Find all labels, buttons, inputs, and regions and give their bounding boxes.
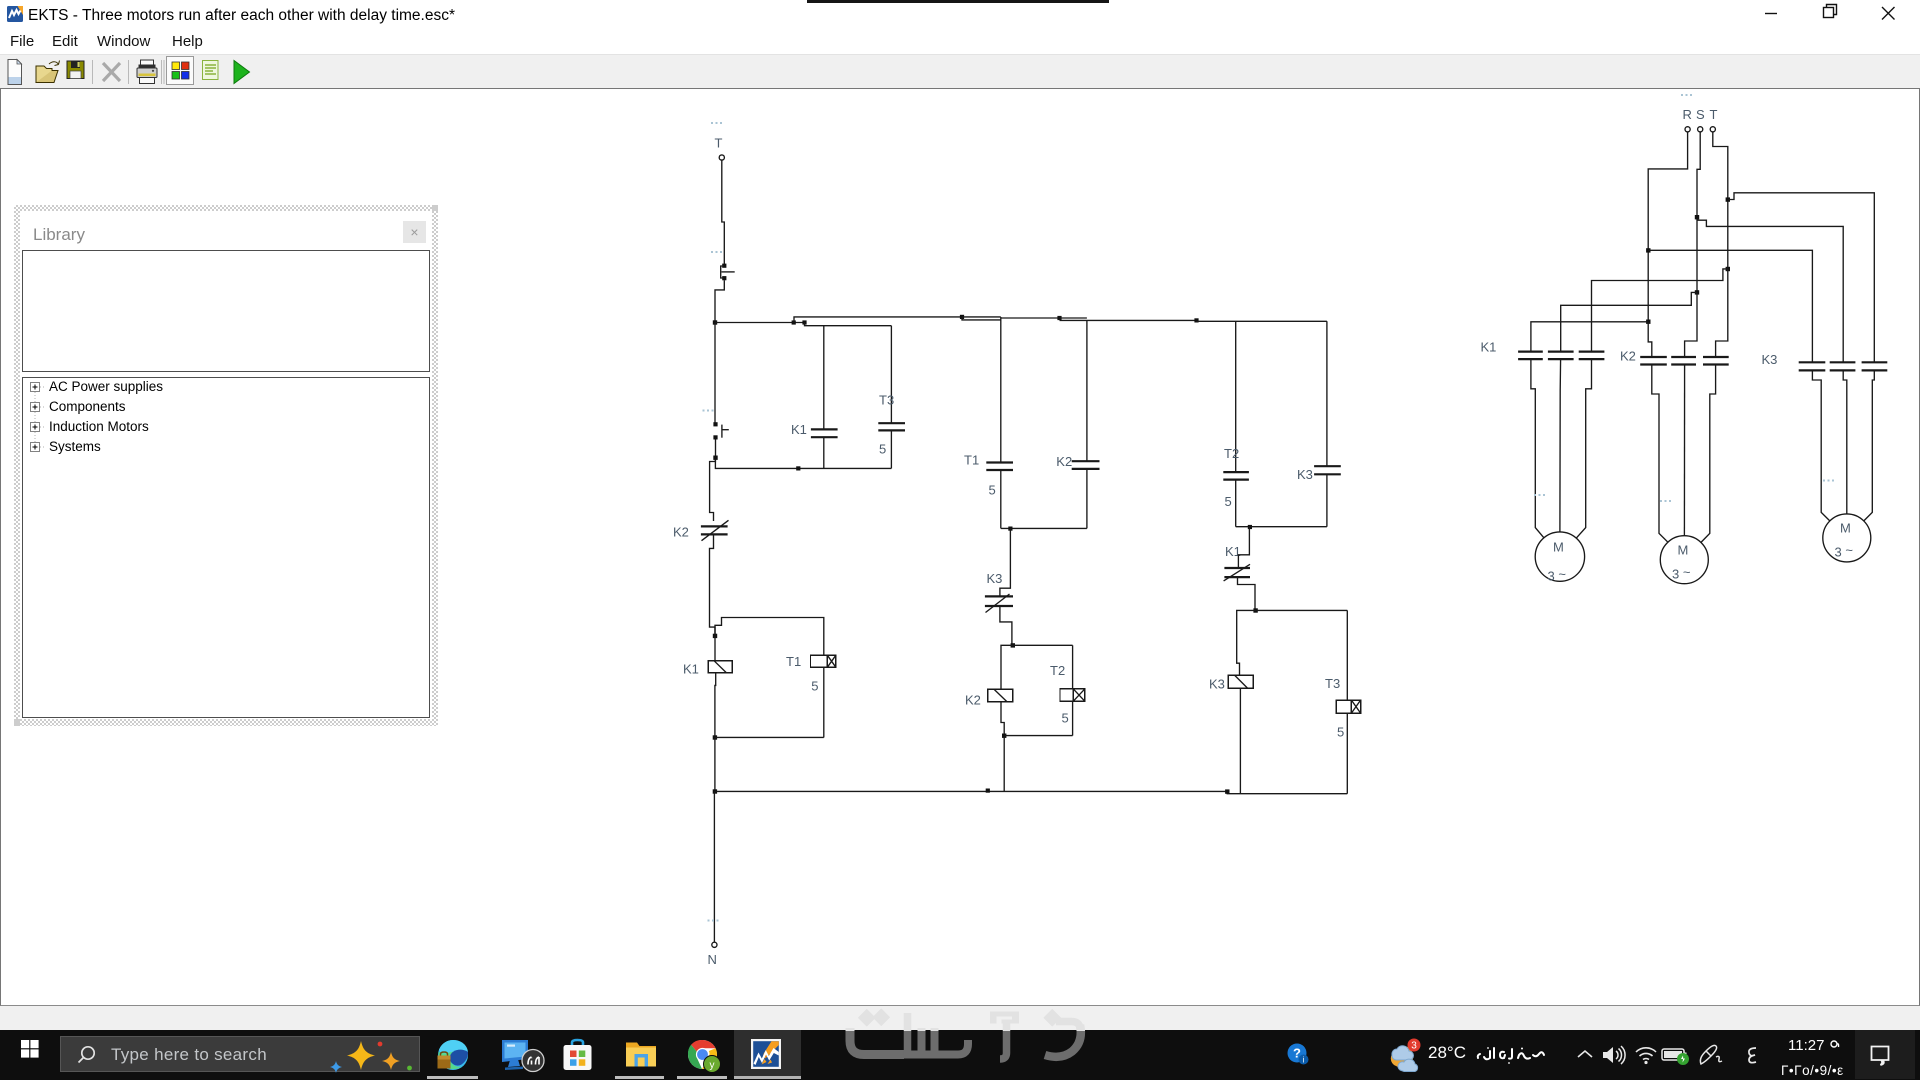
wire K2 coil loop bottom (1004, 735, 1072, 737)
toolbar (0, 54, 1920, 88)
node T-K1 junction (1726, 267, 1730, 271)
open (36, 61, 60, 83)
sparkle icons (323, 1037, 433, 1077)
motor M2 marks (1660, 500, 1671, 502)
node R terminal (1685, 127, 1690, 132)
report (203, 61, 219, 80)
svg-text:5: 5 (879, 442, 886, 457)
wire stop button to node A (715, 280, 724, 321)
relay coil K3 (1228, 675, 1253, 688)
svg-text:3: 3 (1411, 1041, 1417, 1052)
wire middle loop bottom (1001, 527, 1087, 529)
svg-text:K2: K2 (1056, 454, 1072, 469)
wire K3 coil loop top (1237, 610, 1348, 675)
svg-text:K2: K2 (1620, 349, 1636, 364)
tray speaker (1601, 1044, 1627, 1066)
wire top rail segment D (1001, 317, 1060, 319)
wire K3 pole2 to motor3 (1843, 370, 1847, 514)
wire S to K1 pole2 (1561, 292, 1697, 351)
search box (60, 1036, 420, 1072)
wire top rail segment F (1087, 319, 1197, 321)
wire K2 holding down (1086, 469, 1088, 529)
node T terminal (1710, 127, 1715, 132)
wire K1 pole3 to motor1 (1576, 359, 1591, 538)
node R-K1 junction (1646, 320, 1650, 324)
svg-text:M: M (1840, 521, 1851, 536)
help bubble icon (1287, 1043, 1309, 1065)
wire loop to K1 NC (1238, 527, 1250, 568)
node S-K1 junction (1695, 290, 1699, 294)
svg-text:3 ~: 3 ~ (1548, 567, 1567, 584)
wire S to K3 pole2 (1697, 220, 1843, 362)
wire K1 pole1 to motor1 (1531, 359, 1544, 538)
node D junction (713, 735, 717, 739)
wire K3 coil loop bottom (1227, 791, 1347, 793)
pushbutton NC S0 (stop) (721, 264, 735, 281)
wire K3 holding down (1326, 474, 1328, 526)
wire bottom rail (715, 790, 1227, 792)
svg-text:3 ~: 3 ~ (1835, 543, 1854, 560)
wire K1 coil loop top (715, 618, 824, 656)
wire riser K1 holding contact (823, 326, 825, 429)
svg-text:T1: T1 (964, 453, 979, 468)
wire riser T3 contact (890, 326, 892, 423)
contact K2 NO (holding) (1072, 461, 1100, 469)
node G junction (1002, 734, 1006, 738)
delete (disabled) (103, 63, 120, 81)
svg-text:K3: K3 (987, 571, 1003, 586)
wire T3 coil riser (1346, 610, 1348, 700)
svg-text:T: T (715, 136, 723, 151)
svg-text:K2: K2 (965, 693, 981, 708)
node N marks (708, 920, 719, 922)
wire riser K3 holding contact (1326, 321, 1328, 466)
wire phase R feeder (1648, 132, 1687, 322)
svg-text:T2: T2 (1050, 663, 1065, 678)
contactor K3 poles (1799, 362, 1888, 370)
wire K1 holding contact down (823, 437, 825, 468)
contact K2 NC (701, 520, 729, 540)
min / restore / close (1755, 0, 1915, 28)
contact K3 NC (985, 594, 1013, 613)
edge icon (437, 1039, 469, 1071)
contactor K2 poles (1640, 357, 1729, 365)
wire K1 NC to node H (1238, 577, 1256, 610)
wire right loop bottom (1236, 526, 1327, 528)
node A junction (713, 320, 717, 324)
wire holding loop bottom (715, 458, 891, 469)
clock time (1788, 1037, 1840, 1054)
clock date (arabic-indic) (1781, 1063, 1844, 1078)
wire K3 coil to loop bottom (1239, 688, 1241, 794)
wire top rail segment E (doubled) (1060, 317, 1087, 319)
wire to N terminal (713, 791, 715, 942)
tray wifi (1634, 1045, 1658, 1065)
svg-text:S: S (1696, 107, 1705, 122)
timer coil T3 (1336, 700, 1360, 713)
node S terminal (1698, 127, 1703, 132)
timer coil T2 (1060, 689, 1085, 701)
wire T1 coil down (823, 667, 825, 737)
pushbutton NO S1 (start) (713, 422, 728, 439)
svg-text:T3: T3 (1325, 676, 1340, 691)
wire top rail segment G (1197, 320, 1327, 322)
svg-text:i: i (1303, 1055, 1305, 1064)
motor M1 marks (1534, 494, 1545, 496)
wire node A to start button (714, 323, 716, 424)
wire T to K3 pole3 (1728, 193, 1875, 362)
explorer icon (625, 1040, 657, 1069)
contact T2 timed NO (1223, 472, 1249, 480)
svg-text:T3: T3 (879, 393, 894, 408)
timer coil T1 (811, 655, 836, 667)
svg-text:K3: K3 (1297, 467, 1313, 482)
pc icon with badge (499, 1039, 547, 1073)
svg-text:T: T (1710, 107, 1718, 122)
svg-text:R: R (1683, 107, 1692, 122)
node T terminal marks (711, 122, 722, 124)
Library panel (14, 205, 438, 211)
svg-text:K2: K2 (673, 525, 689, 540)
wire start button to node B (715, 440, 717, 458)
node B junction (713, 456, 717, 460)
wire node G to bottom rail (1003, 736, 1005, 792)
motor M3 marks (1823, 480, 1834, 482)
wire K3 pole1 to motor3 (1812, 370, 1829, 521)
wire K1 coil loop bottom (715, 736, 824, 738)
tray battery (1661, 1045, 1691, 1067)
wire S to K2 pole2 (1685, 292, 1697, 357)
wire riser T2 contact (1235, 321, 1237, 472)
wire R to K3 pole1 (1648, 250, 1812, 362)
svg-text:5: 5 (1337, 725, 1344, 740)
wire T terminal to stop button (722, 160, 725, 264)
wire T3 contact down (890, 430, 892, 468)
node C junction (713, 634, 717, 638)
relay coil K2 (988, 689, 1013, 701)
contact K1 NC (1224, 564, 1250, 581)
new (8, 60, 22, 85)
arabic weather text (1476, 1046, 1546, 1066)
node R-K3 junction (1646, 248, 1650, 252)
relay coil K1 (708, 661, 732, 673)
colors (pressed) (167, 57, 194, 85)
wire T2 coil sides (1072, 645, 1074, 689)
wire R to K2 pole1 (1648, 322, 1652, 357)
wire K2 NC to node C (710, 534, 716, 635)
node T-K3 junction (1726, 197, 1730, 201)
menu bar (0, 30, 1920, 54)
wire T to K2 pole3 (1716, 269, 1728, 357)
wire K2 coil loop top (1001, 645, 1073, 689)
contactor K1 poles (1518, 352, 1604, 360)
wire top rail segment C (962, 317, 1001, 320)
svg-text:3 ~: 3 ~ (1672, 565, 1691, 582)
wire node B to K2 NC contact (710, 460, 716, 521)
contact K3 NO (holding) (1314, 466, 1341, 474)
svg-text:N: N (708, 952, 717, 967)
wire T to K1 pole3 (1592, 269, 1728, 352)
wire K2 pole1 to motor2 (1652, 365, 1668, 543)
wire riser T1 contact (1000, 317, 1002, 462)
run (234, 61, 250, 84)
contact T3 timed NO (878, 423, 905, 430)
wire top rail segment B (794, 317, 962, 323)
wire R to K1 pole1 (1531, 322, 1648, 352)
watermark khamsat (840, 995, 1090, 1080)
stop button S0 marks (711, 251, 722, 253)
svg-text:M: M (1678, 543, 1689, 558)
node RST marks (1681, 94, 1692, 96)
wire to K1/T3 holding loop top (805, 323, 892, 326)
svg-text:y: y (710, 1060, 715, 1071)
tray chevron (1576, 1048, 1594, 1062)
contact T1 timed NO (986, 463, 1013, 471)
wire K1 pole2 to motor1 (1559, 359, 1562, 532)
wire riser K2 holding contact (1086, 320, 1088, 461)
svg-text:T1: T1 (786, 654, 801, 669)
node N terminal (712, 942, 717, 947)
contact K1 NO (holding) (811, 429, 838, 437)
svg-text:K1: K1 (1481, 340, 1497, 355)
svg-text:K1: K1 (791, 422, 807, 437)
weather icon (1386, 1038, 1422, 1072)
watermark top sliver (807, 0, 1109, 3)
wire T1 contact down (1000, 470, 1002, 528)
wire end marks on rail (792, 320, 796, 324)
wire phase T feeder (1713, 132, 1728, 269)
save (67, 61, 84, 79)
node I junction (rail end) (1225, 789, 1229, 793)
svg-text:5: 5 (989, 483, 996, 498)
motor M1 (1535, 532, 1584, 584)
svg-text:5: 5 (811, 679, 818, 694)
svg-text:K3: K3 (1762, 352, 1778, 367)
wire K1 coil to node D (714, 673, 717, 738)
wire loop to K3 NC (1000, 528, 1011, 596)
node H junction (1253, 608, 1257, 612)
store icon (561, 1038, 594, 1072)
wire phase S feeder (1697, 132, 1700, 292)
motor M2 (1660, 536, 1708, 584)
wire top rail segment A (715, 322, 805, 324)
wire K2 coil to node G (1001, 702, 1004, 736)
svg-text:5: 5 (1225, 494, 1232, 509)
wire K2 pole2 to motor2 (1683, 365, 1685, 536)
window title bar (0, 0, 1920, 30)
wire T3 coil down (1346, 713, 1348, 794)
print (137, 60, 157, 84)
tray lang (1744, 1045, 1760, 1065)
underline indicators (427, 1076, 478, 1079)
svg-text:5: 5 (1062, 711, 1069, 726)
start button S1 marks (703, 410, 714, 412)
svg-text:M: M (1553, 540, 1564, 555)
chrome icon (687, 1039, 721, 1073)
wire T2 contact down (1235, 480, 1237, 527)
node S-K3 junction (1695, 215, 1699, 219)
svg-text:K3: K3 (1209, 677, 1225, 692)
node E junction (bottom rail left) (713, 789, 717, 793)
ekts active tile (734, 1030, 801, 1079)
wire K3 NC to node F (1000, 606, 1012, 645)
wire node C to K1 coil (714, 636, 716, 661)
node T terminal (719, 155, 724, 160)
wire K3 pole3 to motor3 (1864, 370, 1875, 521)
wire node D to bottom rail (714, 737, 716, 791)
svg-text:T2: T2 (1224, 446, 1239, 461)
tray pen (1698, 1043, 1724, 1067)
node F junction (1011, 643, 1015, 647)
svg-text:K1: K1 (683, 662, 699, 677)
action center block (1855, 1030, 1915, 1079)
wire K2 pole3 to motor2 (1701, 365, 1716, 543)
motor M3 (1823, 514, 1871, 562)
start button (21, 1040, 39, 1058)
taskbar (0, 1030, 1920, 1080)
